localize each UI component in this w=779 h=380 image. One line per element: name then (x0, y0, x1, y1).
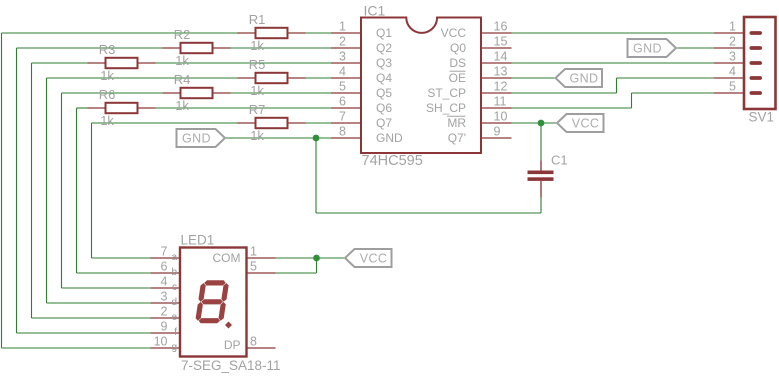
LED1 pin 9 segment f (151, 320, 181, 339)
wire (61, 93, 63, 288)
wire (226, 137, 332, 139)
svg-text:SV1: SV1 (749, 110, 775, 125)
svg-text:R1: R1 (249, 12, 266, 27)
wire (46, 78, 48, 303)
svg-text:1k: 1k (250, 38, 264, 53)
svg-text:R4: R4 (174, 72, 191, 87)
svg-text:4: 4 (729, 65, 736, 79)
svg-text:5: 5 (339, 80, 346, 94)
wire (231, 47, 332, 49)
svg-text:e: e (171, 312, 177, 323)
svg-text:Q1: Q1 (376, 26, 392, 40)
svg-text:7: 7 (339, 110, 346, 124)
wire (540, 198, 542, 214)
resistor R2 (163, 43, 231, 53)
SV1 pin 5 (714, 80, 762, 95)
svg-text:DP: DP (224, 338, 241, 352)
wire (512, 62, 715, 64)
svg-text:Q4: Q4 (376, 71, 392, 85)
svg-text:12: 12 (494, 80, 508, 94)
supply flag VCC (net to IC1 pin 10) (557, 114, 604, 132)
svg-text:a: a (171, 252, 177, 263)
resistor R7 (238, 118, 306, 128)
supply flag GND (net to SV1 pin 2) (628, 39, 677, 57)
resistor R1 (238, 28, 306, 38)
svg-text:16: 16 (494, 20, 508, 34)
connector SV1 body (744, 17, 776, 109)
wire (306, 32, 332, 34)
IC1 pin 9 Q7&#39; (448, 125, 512, 146)
supply flag GND (net to IC1 pin 13) (556, 69, 603, 87)
svg-text:COM: COM (213, 251, 241, 265)
resistor R6 (88, 103, 156, 113)
svg-text:R5: R5 (249, 57, 266, 72)
wire (31, 63, 33, 318)
wire (17, 47, 163, 49)
svg-text:4: 4 (161, 275, 168, 289)
wire (91, 123, 93, 258)
wire (512, 77, 556, 79)
IC1 pin 1 Q1 (331, 20, 392, 41)
svg-text:9: 9 (161, 320, 168, 334)
svg-text:VCC: VCC (441, 26, 467, 40)
wire (62, 92, 163, 94)
svg-text:SH_CP: SH_CP (426, 101, 466, 115)
wire (677, 47, 715, 49)
svg-text:10: 10 (494, 110, 508, 124)
svg-text:9: 9 (494, 125, 501, 139)
svg-text:GND: GND (570, 72, 599, 86)
wire (156, 62, 332, 64)
svg-text:GND: GND (633, 42, 662, 56)
SV1 pin 3 (714, 50, 762, 65)
svg-text:11: 11 (494, 95, 507, 109)
LED1 decimal point (225, 322, 232, 329)
wire (156, 107, 332, 109)
svg-text:1k: 1k (250, 128, 264, 143)
svg-text:GND: GND (376, 131, 403, 145)
svg-text:b: b (171, 267, 177, 278)
wire (617, 77, 715, 79)
svg-text:Q2: Q2 (376, 41, 392, 55)
svg-text:15: 15 (494, 35, 508, 49)
svg-text:5: 5 (729, 80, 736, 94)
wire (2, 32, 238, 34)
wire (92, 257, 151, 259)
svg-text:1: 1 (729, 20, 736, 34)
junction (313, 135, 320, 142)
wire (276, 272, 317, 274)
svg-text:1k: 1k (175, 53, 189, 68)
svg-text:2: 2 (729, 35, 736, 49)
wire (306, 122, 332, 124)
svg-text:f: f (174, 327, 177, 338)
wire (316, 212, 541, 214)
svg-text:Q6: Q6 (376, 101, 392, 115)
svg-text:VCC: VCC (572, 117, 600, 131)
LED1 pin 8 DP (247, 335, 276, 349)
LED1 pin 7 segment a (151, 245, 181, 264)
svg-text:1k: 1k (100, 68, 114, 83)
IC U1 74HC595 body (361, 18, 481, 154)
wire (32, 317, 151, 319)
LED1 pin 2 segment e (151, 305, 181, 324)
svg-text:2: 2 (161, 305, 168, 319)
svg-text:3: 3 (339, 50, 346, 64)
svg-text:1: 1 (250, 245, 257, 259)
svg-text:10: 10 (154, 335, 168, 349)
wire (77, 272, 151, 274)
SV1 pin 4 (714, 65, 762, 80)
svg-text:DS: DS (449, 56, 466, 70)
IC1 pin 6 Q6 (331, 95, 392, 116)
wire (2, 347, 151, 349)
svg-text:3: 3 (161, 290, 168, 304)
svg-text:C1: C1 (551, 153, 568, 168)
svg-text:5: 5 (250, 260, 257, 274)
IC1 pin 13 OE (449, 65, 512, 86)
SV1 pin 2 (714, 35, 762, 50)
junction (313, 255, 320, 262)
svg-text:2: 2 (339, 35, 346, 49)
svg-text:13: 13 (494, 65, 508, 79)
svg-text:R2: R2 (174, 27, 191, 42)
SV1 pin 1 (714, 20, 762, 35)
wire (92, 122, 238, 124)
IC1 pin 3 Q3 (331, 50, 392, 71)
svg-text:VCC: VCC (360, 252, 388, 266)
svg-text:1k: 1k (175, 98, 189, 113)
svg-text:4: 4 (339, 65, 346, 79)
capacitor C1 (528, 161, 554, 198)
svg-text:Q5: Q5 (376, 86, 392, 100)
IC1 pin 8 GND (331, 125, 403, 146)
svg-text:R7: R7 (249, 102, 266, 117)
wire (231, 92, 332, 94)
svg-text:Q7: Q7 (376, 116, 392, 130)
IC1 pin 2 Q2 (331, 35, 392, 56)
svg-text:c: c (172, 282, 177, 293)
wire (540, 123, 542, 161)
wire (512, 122, 558, 124)
svg-text:14: 14 (494, 50, 508, 64)
svg-text:3: 3 (729, 50, 736, 64)
svg-text:MR: MR (447, 116, 466, 130)
IC1 pin 7 Q7 (331, 110, 392, 131)
wire (17, 332, 151, 334)
LED1 digit 8 segments (195, 280, 230, 323)
svg-text:R6: R6 (99, 87, 116, 102)
7-segment display LED1 body (180, 248, 247, 357)
svg-text:OE: OE (449, 71, 466, 85)
svg-text:6: 6 (339, 95, 346, 109)
wire (631, 93, 633, 108)
wire (512, 92, 617, 94)
svg-text:1k: 1k (250, 83, 264, 98)
wire (512, 32, 715, 34)
wire (77, 107, 88, 109)
IC1 pin 4 Q4 (331, 65, 392, 86)
LED1 pin 5 COM (247, 260, 276, 274)
svg-text:g: g (171, 342, 177, 353)
wire (62, 287, 151, 289)
wire (1, 33, 3, 348)
svg-text:8: 8 (250, 335, 257, 349)
resistor R4 (163, 88, 231, 98)
svg-text:GND: GND (182, 132, 211, 146)
IC1 pin 16 VCC (441, 20, 512, 41)
svg-text:7-SEG_SA18-11: 7-SEG_SA18-11 (181, 358, 281, 373)
svg-text:R3: R3 (99, 42, 116, 57)
svg-text:IC1: IC1 (364, 3, 386, 19)
supply flag VCC (net to LED1 COM) (345, 249, 392, 267)
wire (512, 107, 632, 109)
svg-text:8: 8 (339, 125, 346, 139)
LED1 pin 6 segment b (151, 260, 181, 279)
IC1 pin 15 Q0 (450, 35, 512, 56)
svg-text:Q3: Q3 (376, 56, 392, 70)
LED1 pin 4 segment c (151, 275, 181, 294)
IC1 pin 10 MR (447, 110, 512, 131)
svg-text:Q7': Q7' (448, 131, 466, 145)
svg-text:ST_CP: ST_CP (427, 86, 466, 100)
LED1 pin 3 segment d (151, 290, 181, 309)
wire (276, 257, 346, 259)
svg-text:1k: 1k (100, 113, 114, 128)
wire (316, 258, 318, 273)
wire (47, 77, 238, 79)
wire (16, 48, 18, 333)
svg-text:LED1: LED1 (181, 233, 215, 248)
IC1 pin 14 DS (449, 50, 511, 71)
svg-text:1: 1 (339, 20, 346, 34)
resistor R3 (88, 58, 156, 68)
IC1 pin 5 Q5 (331, 80, 392, 101)
IC1 pin 11 SH_CP (426, 95, 512, 116)
wire (32, 62, 88, 64)
IC1 pin 12 ST_CP (427, 80, 511, 101)
wire (632, 92, 715, 94)
LED1 pin 10 segment g (151, 335, 181, 354)
wire (616, 78, 618, 93)
junction (538, 120, 545, 127)
wire (76, 108, 78, 273)
LED1 pin 1 COM (247, 245, 276, 259)
svg-text:6: 6 (161, 260, 168, 274)
wire (315, 138, 317, 213)
supply flag GND (net to IC1 pin 8) (177, 129, 226, 147)
svg-text:74HC595: 74HC595 (362, 153, 423, 169)
svg-text:Q0: Q0 (450, 41, 466, 55)
svg-text:d: d (171, 297, 177, 308)
wire (47, 302, 151, 304)
svg-text:7: 7 (161, 245, 168, 259)
resistor R5 (238, 73, 306, 83)
wire (306, 77, 332, 79)
